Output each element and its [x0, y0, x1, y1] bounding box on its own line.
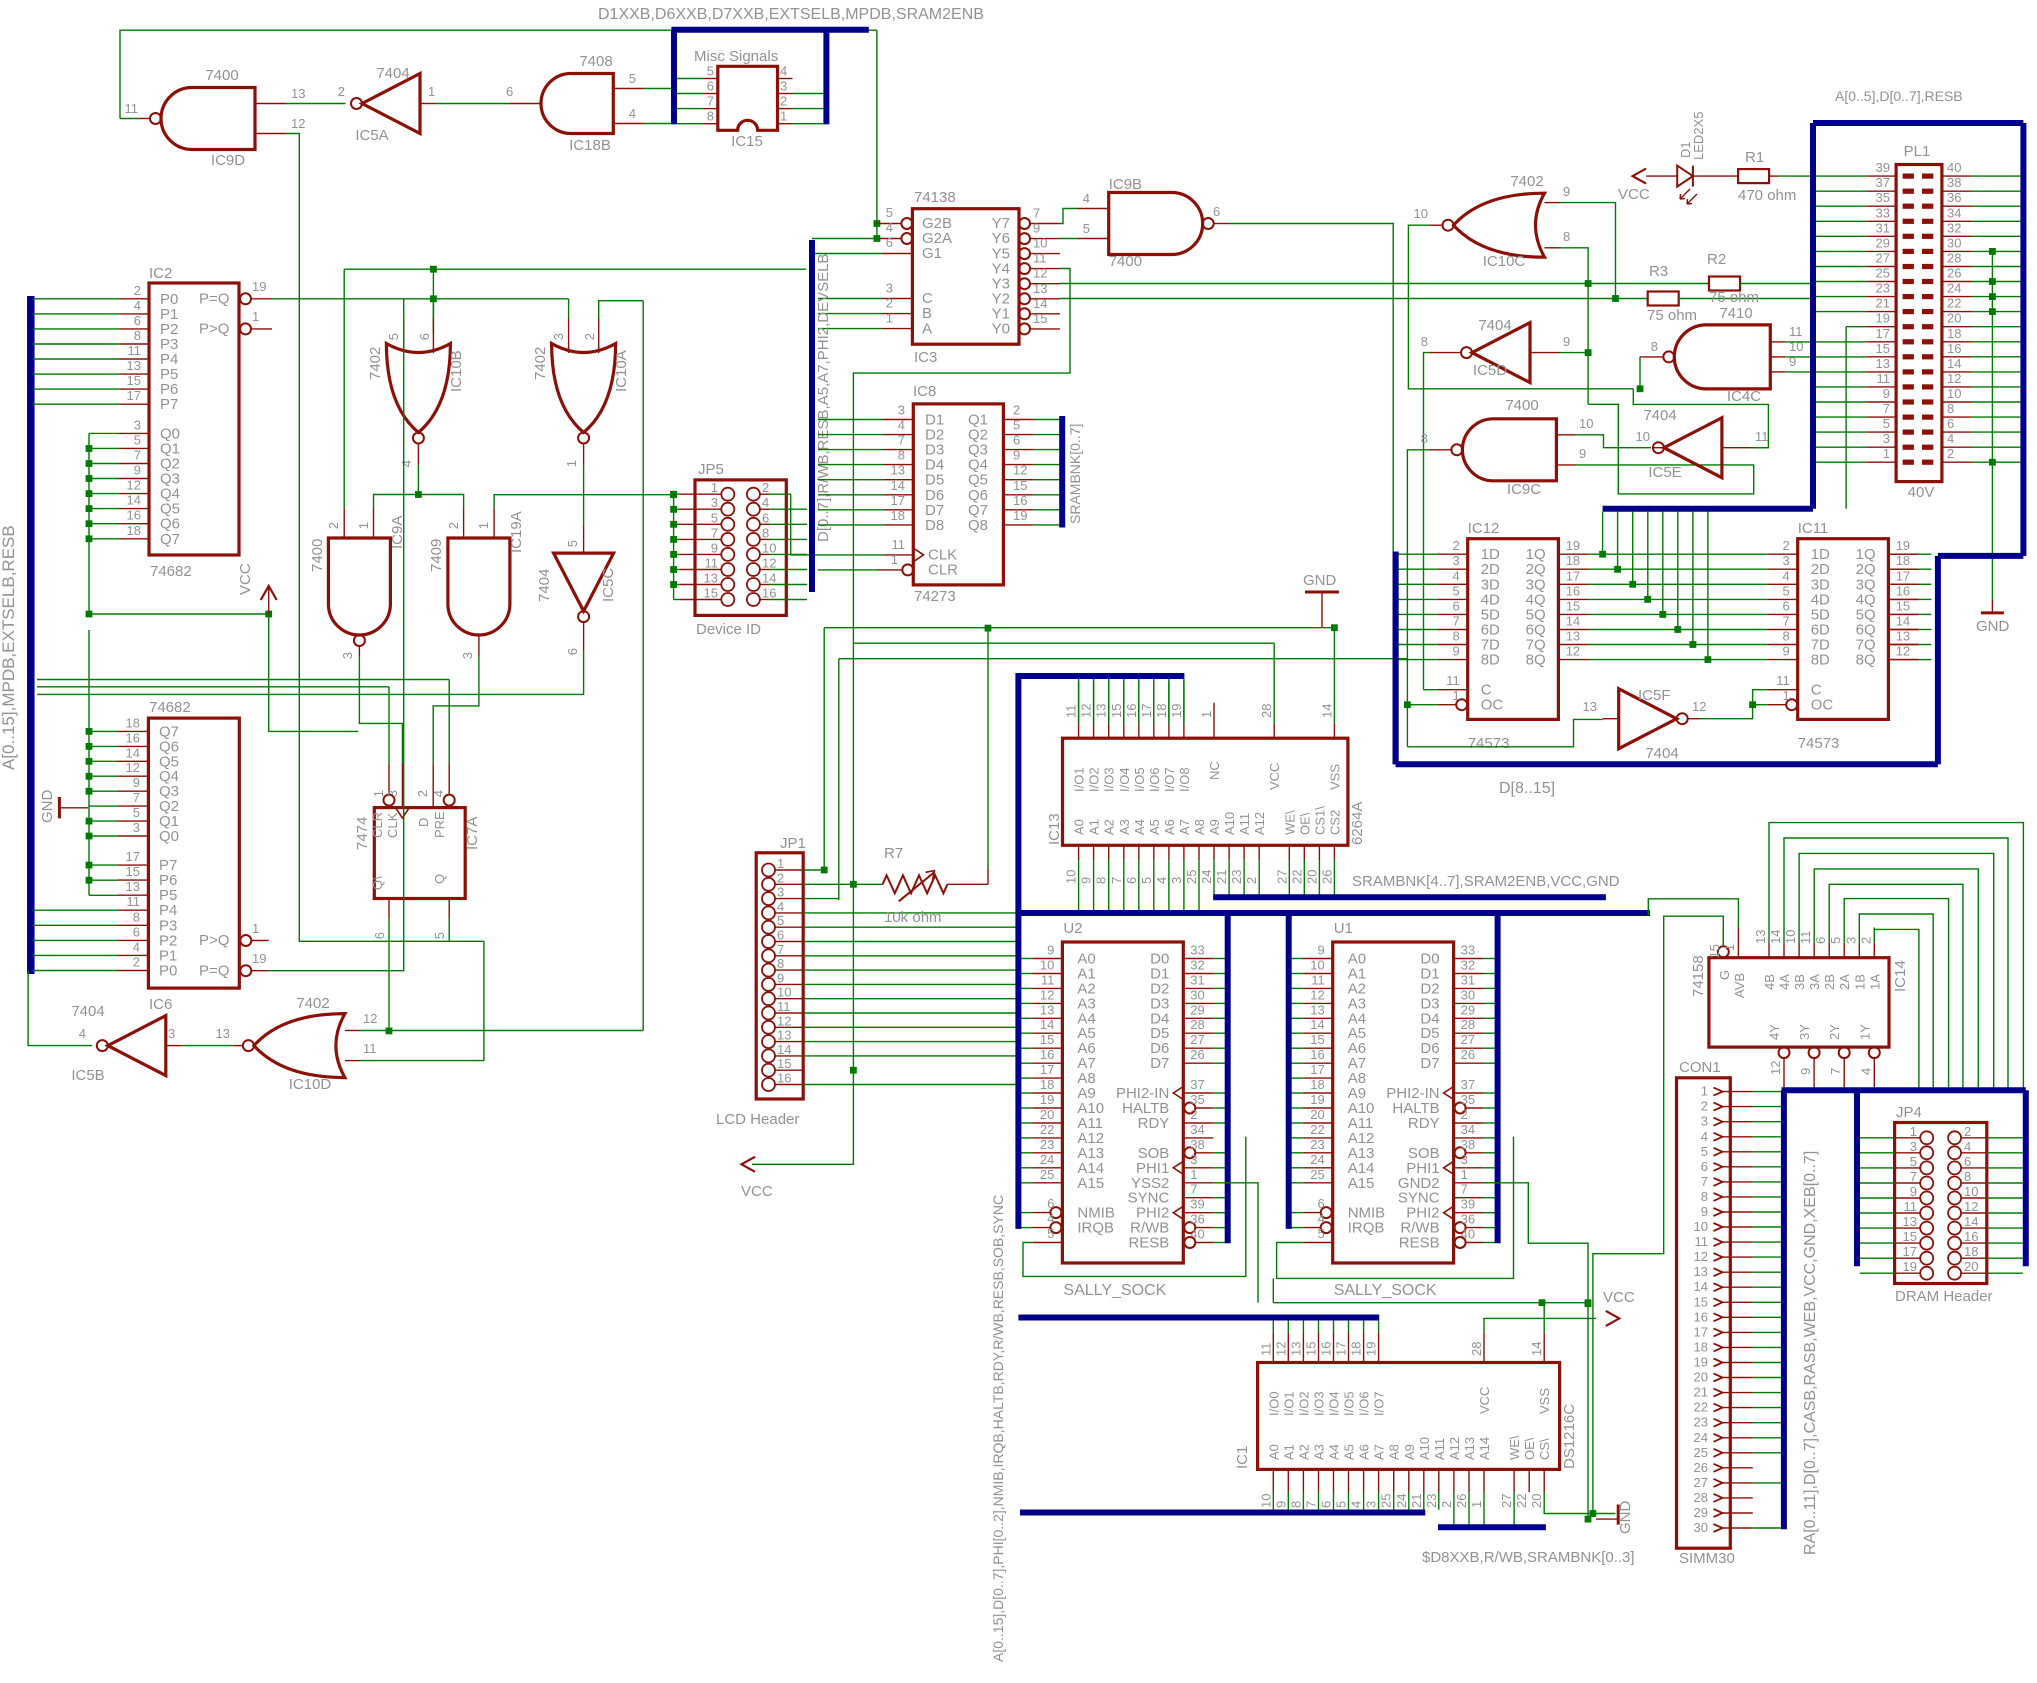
IC1 I/O7 pin 19 — [1378, 1332, 1380, 1362]
wire U1 GND2 to GND net — [1484, 1183, 1588, 1303]
svg-text:9: 9 — [711, 540, 718, 555]
IC8 CLR pin 1 — [902, 564, 913, 575]
IC1 I/O5 pin 17 — [1348, 1332, 1350, 1362]
IC13 I/O1 pin 11 — [1078, 723, 1080, 738]
wire RESB net left — [1272, 1278, 1274, 1302]
bus around IC13 top — [1018, 676, 1184, 913]
svg-text:26: 26 — [1454, 1494, 1469, 1508]
svg-text:1: 1 — [1782, 688, 1789, 703]
svg-text:12: 12 — [1013, 463, 1027, 478]
svg-text:4: 4 — [1047, 1211, 1054, 1226]
wire U2 YSS2 right — [1213, 1183, 1258, 1303]
CON1 pin 3 — [1714, 1118, 1723, 1126]
svg-text:15: 15 — [1033, 311, 1047, 326]
svg-text:2: 2 — [1461, 1107, 1468, 1122]
svg-text:VCC: VCC — [1618, 186, 1650, 203]
wires IC10B inputs from above — [403, 299, 405, 319]
U1 SYNC pin 7 — [1454, 1197, 1484, 1199]
IC8 D8 pin 18 — [883, 524, 913, 526]
svg-text:D7: D7 — [1150, 1055, 1169, 1072]
svg-text:11: 11 — [1755, 429, 1769, 444]
bus RA horizontal — [1782, 1087, 2026, 1093]
GND symbol bottom right — [1617, 1505, 1620, 1525]
wire IC7A.Q\ down to IC10D.12 — [388, 919, 390, 1031]
svg-text:3: 3 — [1782, 553, 1789, 568]
U2 YSS2 pin 1 — [1183, 1182, 1213, 1184]
svg-text:30: 30 — [1190, 987, 1204, 1002]
IC8 D2 pin 4 — [883, 434, 913, 436]
wire PL1 pin 21 row to bus bottom — [1846, 326, 1866, 328]
svg-text:CS1\: CS1\ — [1312, 806, 1327, 835]
svg-text:16: 16 — [1124, 704, 1139, 718]
connector CON1 SIMM30 — [1677, 1078, 1731, 1548]
wire IC10B.4 down to W1 — [417, 465, 419, 494]
svg-text:23: 23 — [1040, 1137, 1054, 1152]
svg-text:A4: A4 — [1327, 1444, 1342, 1460]
U1 pin 5 — [1303, 1242, 1333, 1244]
svg-text:13: 13 — [704, 571, 718, 586]
special symbol IC15 Misc Signals — [718, 66, 778, 130]
U1 RESB pin 40 — [1455, 1237, 1466, 1248]
PL1 pin 13/14 row — [1903, 369, 1914, 374]
svg-text:19: 19 — [1013, 508, 1027, 523]
svg-text:9: 9 — [1883, 386, 1890, 401]
svg-text:A7: A7 — [1372, 1444, 1387, 1460]
svg-text:14: 14 — [1768, 930, 1783, 944]
IC13 A12 pin 2 — [1258, 845, 1260, 860]
svg-text:11: 11 — [705, 556, 719, 571]
PL1 pin 1/2 row — [1903, 460, 1914, 465]
U1 SOB pin 38 — [1455, 1147, 1466, 1158]
wire IC14.AVB from SRAMBNK bus — [1648, 899, 1738, 928]
svg-text:18: 18 — [891, 508, 905, 523]
svg-text:11: 11 — [1877, 371, 1891, 386]
svg-text:13: 13 — [127, 358, 141, 373]
bus main horizontal over U2/U1 — [1018, 910, 1650, 916]
svg-text:7400: 7400 — [205, 67, 238, 84]
svg-text:11: 11 — [1311, 972, 1325, 987]
IC13 A3 pin 7 — [1123, 845, 1125, 860]
svg-text:15: 15 — [1040, 1032, 1054, 1047]
CON1 pin 8 — [1714, 1193, 1723, 1201]
IC1 WE\ pin 27 — [1513, 1469, 1515, 1492]
svg-text:11: 11 — [1041, 972, 1055, 987]
svg-text:A6: A6 — [1162, 819, 1177, 835]
svg-text:8: 8 — [133, 909, 140, 924]
IC3 A pin 1 — [882, 328, 912, 330]
svg-text:27: 27 — [1499, 1494, 1514, 1508]
svg-text:10: 10 — [1033, 236, 1047, 251]
IC13 A2 pin 8 — [1108, 845, 1110, 860]
svg-text:7: 7 — [1910, 1169, 1917, 1184]
svg-text:19: 19 — [252, 279, 266, 294]
svg-text:A4: A4 — [1132, 819, 1147, 835]
IC14 1B pin 3 — [1858, 943, 1860, 958]
IC11 6Q pin 14 — [1888, 629, 1918, 631]
svg-text:A15: A15 — [1077, 1175, 1104, 1192]
IC8 Q4 pin 9 — [1003, 464, 1033, 466]
U2 SYNC pin 7 — [1183, 1197, 1213, 1199]
PL1 pin 5/6 row — [1903, 430, 1914, 435]
IC7A PRE pin 4 — [444, 795, 455, 806]
svg-text:7404: 7404 — [1645, 745, 1678, 762]
svg-text:11: 11 — [777, 999, 791, 1014]
IC11 4Q pin 16 — [1888, 598, 1918, 600]
wire bus-end down to IC5B — [28, 971, 92, 1046]
bus RA left vertical — [1781, 1090, 1787, 1529]
svg-text:3: 3 — [1910, 1139, 1917, 1154]
svg-text:CLR: CLR — [370, 812, 385, 838]
svg-text:P0: P0 — [159, 963, 177, 980]
svg-text:12: 12 — [1947, 371, 1961, 386]
bus left of U2 — [1015, 911, 1021, 1229]
wire VSS/GND horizontal — [1273, 1303, 1544, 1333]
svg-text:4B: 4B — [1762, 974, 1777, 990]
svg-text:12: 12 — [1768, 1061, 1783, 1075]
svg-text:17: 17 — [1310, 1062, 1324, 1077]
svg-text:39: 39 — [1461, 1197, 1475, 1212]
svg-text:7404: 7404 — [376, 65, 409, 82]
svg-text:470 ohm: 470 ohm — [1738, 187, 1796, 204]
svg-text:27: 27 — [1190, 1032, 1204, 1047]
bus below IC1 right segment — [1438, 1524, 1546, 1530]
svg-text:27: 27 — [1876, 251, 1890, 266]
bus right of U1 — [1495, 911, 1501, 1244]
svg-text:8: 8 — [1563, 229, 1570, 244]
svg-text:A: A — [922, 320, 932, 337]
wire IC5C.6 output left — [37, 651, 584, 695]
IC11 1Q pin 19 — [1888, 553, 1918, 555]
IC12 2Q pin 18 — [1558, 568, 1588, 570]
wire VCC net vertical down to GND bar region — [1587, 1303, 1589, 1519]
IC13 CS2 pin 26 — [1333, 845, 1335, 860]
CON1 pin 23 — [1714, 1419, 1723, 1427]
latch IC12 74573 — [1468, 539, 1559, 720]
IC13 OE\ pin 22 — [1303, 845, 1305, 860]
svg-text:28: 28 — [1461, 1017, 1475, 1032]
svg-text:5: 5 — [133, 805, 140, 820]
svg-text:IC5B: IC5B — [71, 1067, 104, 1084]
svg-text:$D8XXB,R/WB,SRAMBNK[0..3]: $D8XXB,R/WB,SRAMBNK[0..3] — [1422, 1549, 1635, 1566]
svg-text:11: 11 — [1695, 1234, 1709, 1249]
svg-text:CS\: CS\ — [1537, 1438, 1552, 1460]
svg-text:13: 13 — [1694, 1264, 1708, 1279]
wire IC1 VCC pin right to VCC arrow — [1484, 1318, 1596, 1332]
IC3 Y4 pin 11 — [1019, 263, 1030, 274]
wire R7 wiper vertical — [987, 628, 989, 868]
svg-text:IC10D: IC10D — [289, 1076, 332, 1093]
wire EXTSEL row to bus — [344, 268, 806, 270]
svg-text:28: 28 — [1469, 1342, 1484, 1356]
cpu socket U2 SALLY_SOCK — [1062, 942, 1183, 1263]
svg-text:5: 5 — [777, 913, 784, 928]
svg-text:30: 30 — [1694, 1520, 1708, 1535]
svg-text:6: 6 — [1813, 937, 1828, 944]
svg-text:9: 9 — [1317, 943, 1324, 958]
svg-text:29: 29 — [1461, 1002, 1475, 1017]
svg-text:VCC: VCC — [1603, 1289, 1635, 1306]
svg-text:31: 31 — [1876, 220, 1890, 235]
svg-text:15: 15 — [777, 1056, 791, 1071]
svg-text:12: 12 — [762, 556, 776, 571]
svg-text:11: 11 — [363, 1041, 377, 1056]
wire IC6.P=Q up to IC10B.5 — [269, 319, 404, 971]
IC12 6D pin 7 — [1438, 629, 1468, 631]
nand IC9B 7400 — [1109, 193, 1203, 255]
IC1 I/O4 pin 16 — [1333, 1332, 1335, 1362]
IC1 A14 pin 1 — [1483, 1469, 1485, 1492]
wire to IC5E.11 — [1633, 389, 1768, 448]
svg-text:7404: 7404 — [71, 1003, 104, 1020]
JP4 pins 17/18 — [1920, 1252, 1933, 1265]
CON1 pin 15 — [1714, 1298, 1723, 1306]
svg-text:11: 11 — [1446, 673, 1460, 688]
svg-text:24: 24 — [1199, 870, 1214, 884]
svg-text:13: 13 — [1876, 356, 1890, 371]
svg-text:18: 18 — [1566, 553, 1580, 568]
wire IC10D.12 net — [360, 1030, 643, 1032]
svg-text:1: 1 — [777, 856, 784, 871]
svg-text:37: 37 — [1876, 175, 1890, 190]
svg-text:36: 36 — [1947, 190, 1961, 205]
IC8 Q1 pin 2 — [1003, 419, 1033, 421]
IC1 OE\ pin 22 — [1528, 1469, 1530, 1492]
CON1 pin 17 — [1714, 1328, 1723, 1336]
svg-text:16: 16 — [1040, 1047, 1054, 1062]
svg-text:DS1216C: DS1216C — [1561, 1404, 1578, 1469]
IC11 2D pin 3 — [1768, 568, 1798, 570]
svg-text:3: 3 — [1169, 877, 1184, 884]
svg-text:7: 7 — [1883, 401, 1890, 416]
svg-text:14: 14 — [127, 493, 141, 508]
svg-text:P=Q: P=Q — [199, 291, 229, 308]
U2 HALTB pin 35 — [1184, 1103, 1195, 1114]
IC12 2D pin 3 — [1438, 568, 1468, 570]
IC13 A11 pin 23 — [1243, 845, 1245, 860]
svg-text:19: 19 — [1169, 704, 1184, 718]
inverter IC5E 7404 — [1664, 418, 1722, 478]
CON1 pin 26 — [1714, 1464, 1723, 1472]
svg-text:U2: U2 — [1063, 920, 1082, 937]
svg-text:14: 14 — [1896, 614, 1910, 629]
svg-text:23: 23 — [1310, 1137, 1324, 1152]
IC14 1A pin 2 — [1873, 943, 1875, 958]
bus JP4 left vertical — [1854, 1090, 1860, 1266]
svg-text:4: 4 — [780, 64, 787, 79]
svg-text:28: 28 — [1190, 1017, 1204, 1032]
svg-text:IC6: IC6 — [149, 996, 172, 1013]
svg-text:JP4: JP4 — [1896, 1104, 1922, 1121]
svg-text:19: 19 — [1566, 538, 1580, 553]
svg-text:I/O8: I/O8 — [1177, 767, 1192, 792]
svg-text:8: 8 — [1094, 877, 1109, 884]
svg-text:16: 16 — [1319, 1342, 1334, 1356]
svg-text:8: 8 — [762, 525, 769, 540]
svg-text:17: 17 — [1896, 568, 1910, 583]
U2 PHI1 pin 3 — [1183, 1167, 1213, 1169]
svg-text:6: 6 — [1782, 598, 1789, 613]
IC13 I/O3 pin 13 — [1108, 723, 1110, 738]
wire IC10C.10 output down-right — [1408, 225, 1633, 389]
nor IC10C 7402 — [1454, 193, 1545, 257]
wires IC4C inputs from PL1 left rows — [1785, 341, 1866, 343]
svg-text:27: 27 — [1694, 1475, 1708, 1490]
IC3 Y1 pin 14 — [1019, 308, 1030, 319]
svg-text:5: 5 — [1782, 583, 1789, 598]
IC1 A7 pin 3 — [1378, 1469, 1380, 1492]
svg-text:16: 16 — [126, 730, 140, 745]
svg-text:4: 4 — [898, 418, 905, 433]
svg-text:39: 39 — [1190, 1197, 1204, 1212]
IC13 A10 pin 21 — [1228, 845, 1230, 860]
U1 D4 pin 29 — [1454, 1017, 1484, 1019]
svg-text:9: 9 — [1047, 943, 1054, 958]
bus above IC1 — [1018, 1315, 1379, 1321]
svg-text:28: 28 — [1259, 704, 1274, 718]
bus RA right vertical — [2023, 1090, 2029, 1266]
svg-text:7410: 7410 — [1719, 305, 1752, 322]
wire JP1 to VCC arrow bottom — [752, 1070, 853, 1164]
CON1 pin 25 — [1714, 1449, 1723, 1457]
svg-text:6: 6 — [417, 333, 432, 340]
svg-text:15: 15 — [127, 373, 141, 388]
svg-text:IC4C: IC4C — [1727, 388, 1761, 405]
IC13 A6 pin 4 — [1168, 845, 1170, 860]
svg-text:3Y: 3Y — [1797, 1024, 1812, 1040]
svg-text:A15: A15 — [1348, 1175, 1375, 1192]
wire IC9C.9 loop — [1576, 404, 1754, 494]
svg-text:2: 2 — [1190, 1107, 1197, 1122]
svg-text:IC9D: IC9D — [211, 152, 245, 169]
IC1 I/O6 pin 18 — [1363, 1332, 1365, 1362]
svg-text:9: 9 — [134, 463, 141, 478]
svg-text:12: 12 — [363, 1011, 377, 1026]
IC14 4B pin 13 — [1768, 943, 1770, 958]
svg-text:8D: 8D — [1811, 652, 1830, 669]
wire IC10C.9 to R3 line — [1560, 203, 1616, 299]
IC1 A5 pin 5 — [1348, 1469, 1350, 1492]
IC14 2Y pin 7 — [1839, 1047, 1850, 1058]
PL1 pin 11/12 row — [1903, 384, 1914, 389]
svg-text:24: 24 — [1310, 1152, 1324, 1167]
svg-text:74573: 74573 — [1468, 735, 1510, 752]
svg-text:13: 13 — [216, 1026, 230, 1041]
JP4 pins 19/20 — [1920, 1267, 1933, 1280]
svg-text:1: 1 — [252, 309, 259, 324]
CON1 pin 16 — [1714, 1313, 1723, 1321]
U2 D0 pin 33 — [1183, 958, 1213, 960]
svg-text:4: 4 — [762, 495, 769, 510]
wire IC5D.8 down to IC12.C — [1424, 353, 1431, 690]
svg-text:4: 4 — [133, 939, 140, 954]
svg-text:3: 3 — [1190, 1152, 1197, 1167]
svg-text:23: 23 — [1424, 1494, 1439, 1508]
svg-text:9: 9 — [1033, 221, 1040, 236]
svg-text:22: 22 — [1514, 1494, 1529, 1508]
wire Y7 to IC9B.4 — [1060, 209, 1078, 224]
CON1 pin 28 — [1714, 1494, 1723, 1502]
U2 NMIB pin 6 — [1050, 1207, 1061, 1218]
svg-text:13: 13 — [1583, 699, 1597, 714]
svg-text:4: 4 — [1154, 877, 1169, 884]
svg-text:IC9B: IC9B — [1109, 176, 1142, 193]
wire JP5.2 to IC8 CLK — [791, 494, 883, 555]
IC13 I/O7 pin 18 — [1168, 723, 1170, 738]
svg-text:IC2: IC2 — [149, 265, 172, 282]
svg-text:8Q: 8Q — [1856, 652, 1876, 669]
svg-text:CON1: CON1 — [1679, 1059, 1721, 1076]
wire IC10D.11 from IC7A Q — [360, 1060, 484, 1062]
svg-text:DRAM Header: DRAM Header — [1895, 1288, 1993, 1305]
svg-text:27: 27 — [1461, 1032, 1475, 1047]
svg-text:13: 13 — [1094, 704, 1109, 718]
svg-text:IC14: IC14 — [1892, 960, 1909, 992]
U2 pin 5 — [1032, 1242, 1062, 1244]
svg-text:10: 10 — [1579, 416, 1593, 431]
svg-text:17: 17 — [1334, 1342, 1349, 1356]
wire IC5A.1 to IC18B.6 — [435, 103, 510, 105]
IC3 Y3 pin 12 — [1019, 278, 1030, 289]
svg-text:5: 5 — [565, 540, 580, 547]
wire IC2.P=Q to gates — [272, 298, 569, 300]
U1 HALTB pin 35 — [1455, 1103, 1466, 1114]
svg-text:IC10B: IC10B — [448, 350, 465, 392]
led D1 LED2X5 — [1677, 166, 1693, 187]
svg-text:RESB: RESB — [1399, 1235, 1440, 1252]
svg-text:15: 15 — [1310, 1032, 1324, 1047]
wires IC6 P7 P6 from vertical, P5 corner — [89, 864, 118, 866]
svg-text:3: 3 — [711, 495, 718, 510]
svg-text:3: 3 — [1701, 1114, 1708, 1129]
svg-text:25: 25 — [1379, 1494, 1394, 1508]
VCC arrow right bottom — [1606, 1311, 1620, 1326]
IC13 I/O2 pin 12 — [1093, 723, 1095, 738]
svg-text:PL1: PL1 — [1904, 143, 1931, 160]
svg-text:1: 1 — [1701, 1084, 1708, 1099]
svg-text:12: 12 — [1033, 266, 1047, 281]
svg-text:2: 2 — [1244, 877, 1259, 884]
svg-text:A13: A13 — [1462, 1437, 1477, 1460]
svg-text:20: 20 — [1947, 311, 1961, 326]
svg-text:14: 14 — [1566, 614, 1580, 629]
IC13 VSS pin 14 — [1333, 723, 1335, 738]
svg-text:11: 11 — [1064, 705, 1079, 719]
svg-text:24: 24 — [1694, 1430, 1708, 1445]
svg-text:1: 1 — [886, 311, 893, 326]
U2 RDY pin 2 — [1183, 1122, 1213, 1124]
svg-text:26: 26 — [1694, 1460, 1708, 1475]
svg-text:26: 26 — [1190, 1047, 1204, 1062]
wire IC9A.3 to IC7A CLK — [359, 657, 402, 764]
svg-text:A1: A1 — [1087, 819, 1102, 835]
svg-text:7: 7 — [1452, 614, 1459, 629]
U2 PHI2-IN pin 37 — [1183, 1092, 1213, 1094]
U1 D3 pin 30 — [1454, 1002, 1484, 1004]
svg-text:16: 16 — [777, 1071, 791, 1086]
svg-text:3: 3 — [385, 790, 400, 797]
svg-text:74573: 74573 — [1798, 735, 1840, 752]
svg-text:5: 5 — [1317, 1226, 1324, 1241]
svg-text:18: 18 — [1694, 1339, 1708, 1354]
IC1 A10 pin 21 — [1423, 1469, 1425, 1492]
svg-text:IC5E: IC5E — [1648, 464, 1681, 481]
IC14 AVB pin 1 — [1737, 928, 1739, 958]
svg-text:2: 2 — [886, 296, 893, 311]
svg-text:6: 6 — [1701, 1159, 1708, 1174]
svg-text:D1XXB,D6XXB,D7XXB,EXTSELB,MPDB: D1XXB,D6XXB,D7XXB,EXTSELB,MPDB,SRAM2ENB — [598, 6, 984, 23]
IC8 Q6 pin 15 — [1003, 494, 1033, 496]
svg-text:I/O3: I/O3 — [1102, 767, 1117, 792]
